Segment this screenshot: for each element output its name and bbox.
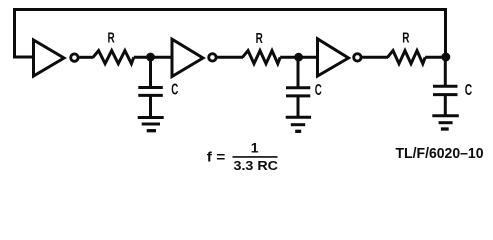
wire node3 down to C3: [444, 57, 447, 86]
wire C1 to ground: [149, 95, 152, 117]
wire node1 down to C1: [149, 57, 152, 88]
resistor R1: [93, 51, 134, 64]
svg-text:C: C: [171, 81, 178, 98]
wire C2 to ground: [297, 96, 300, 117]
op-amp U2 output bubble: [209, 54, 216, 61]
ground 3: [432, 116, 459, 129]
wire bubble2 to R2: [217, 56, 243, 59]
capacitor C2: [286, 88, 310, 96]
op-amp U2 inverter triangle: [172, 39, 203, 76]
svg-text:TL/F/6020–10: TL/F/6020–10: [396, 145, 484, 162]
node junction 1: [146, 53, 155, 62]
formula f = 1 / 3.3 RC: [207, 140, 279, 173]
wire C3 to ground: [444, 95, 447, 116]
svg-text:3.3 RC: 3.3 RC: [234, 158, 279, 173]
wire bubble1 to R1: [79, 56, 93, 59]
svg-text:C: C: [315, 82, 322, 99]
ground 2: [286, 117, 311, 131]
svg-text:f =: f =: [207, 149, 226, 164]
wire node2 down to C2: [297, 57, 300, 88]
svg-text:R: R: [256, 30, 263, 47]
svg-text:1: 1: [251, 140, 259, 156]
wire feedback loop top: [15, 10, 446, 58]
op-amp U3 output bubble: [354, 54, 361, 61]
op-amp U3 inverter triangle: [318, 39, 349, 76]
svg-text:R: R: [108, 30, 115, 47]
op-amp U1 inverter triangle: [34, 40, 65, 76]
wire R1 to inverter U2 input: [134, 56, 172, 59]
resistor R3: [388, 51, 426, 64]
wire bubble3 to R3: [362, 56, 388, 59]
op-amp U1 output bubble: [71, 54, 78, 61]
node junction 2: [294, 53, 303, 62]
svg-text:C: C: [465, 82, 472, 99]
svg-text:R: R: [402, 30, 409, 47]
ground 1: [138, 118, 164, 131]
resistor R2: [243, 51, 281, 64]
wire R2 to inverter U3 input: [280, 56, 317, 59]
node junction 3: [441, 53, 450, 62]
capacitor C3: [433, 86, 458, 94]
capacitor C1: [138, 88, 163, 96]
wire R3 to node 3: [425, 56, 445, 59]
